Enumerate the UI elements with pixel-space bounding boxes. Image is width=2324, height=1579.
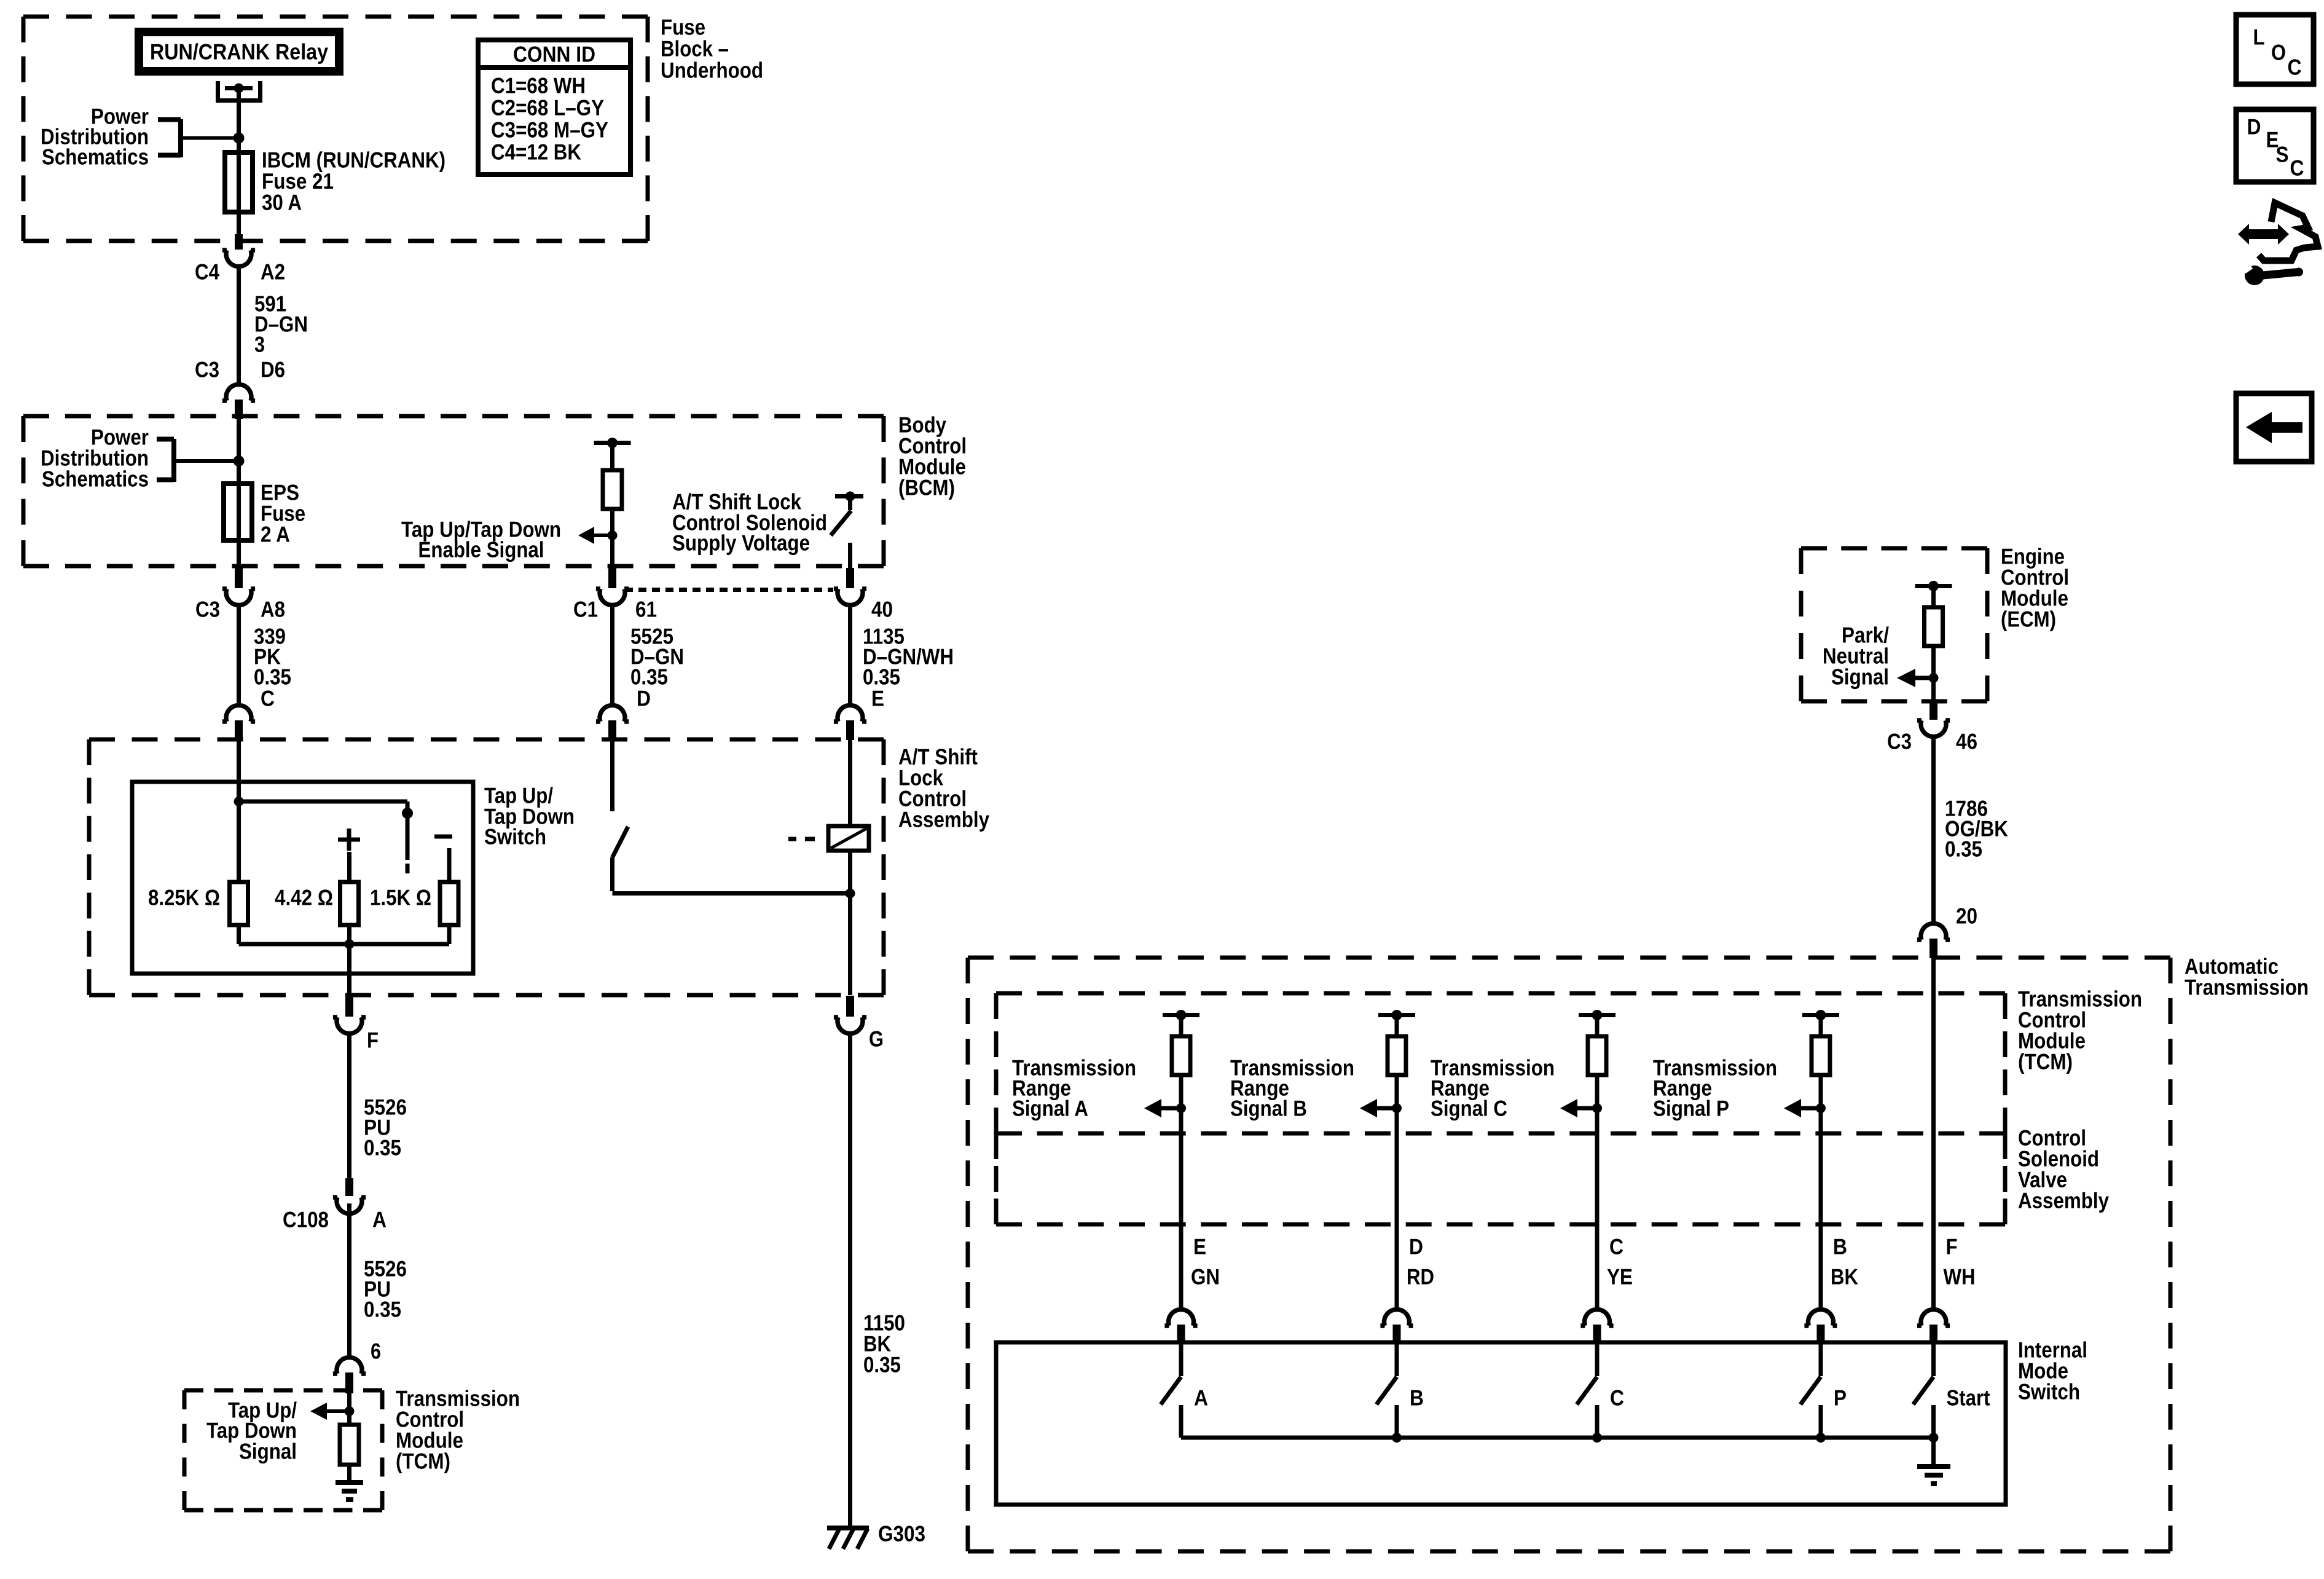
svg-text:Signal: Signal <box>239 1438 297 1463</box>
svg-text:YE: YE <box>1607 1264 1633 1289</box>
svg-text:C: C <box>2288 54 2302 79</box>
svg-text:Signal P: Signal P <box>1653 1095 1729 1120</box>
svg-text:3: 3 <box>254 331 265 356</box>
svg-text:0.35: 0.35 <box>863 1352 901 1377</box>
svg-text:61: 61 <box>635 596 657 621</box>
svg-text:C: C <box>1609 1234 1623 1259</box>
svg-text:C3: C3 <box>195 596 220 621</box>
svg-text:C: C <box>2290 155 2304 180</box>
svg-text:Signal: Signal <box>1831 664 1889 689</box>
svg-text:4.42 Ω: 4.42 Ω <box>275 884 333 910</box>
svg-text:(ECM): (ECM) <box>2001 606 2056 631</box>
svg-text:A2: A2 <box>261 259 285 284</box>
svg-text:E: E <box>1193 1234 1206 1259</box>
svg-text:GN: GN <box>1191 1264 1220 1289</box>
svg-text:Schematics: Schematics <box>42 144 149 169</box>
svg-text:0.35: 0.35 <box>364 1296 401 1321</box>
svg-text:Switch: Switch <box>2018 1379 2080 1404</box>
svg-text:30 A: 30 A <box>262 189 302 215</box>
svg-text:8.25K Ω: 8.25K Ω <box>148 884 220 910</box>
svg-text:A: A <box>1194 1385 1208 1410</box>
svg-text:O: O <box>2271 39 2286 65</box>
svg-text:C: C <box>261 685 275 711</box>
svg-text:C: C <box>1610 1385 1624 1410</box>
svg-text:CONN ID: CONN ID <box>513 41 595 66</box>
svg-text:Supply Voltage: Supply Voltage <box>672 530 810 555</box>
svg-text:Signal B: Signal B <box>1230 1095 1307 1120</box>
svg-text:C108: C108 <box>283 1207 329 1232</box>
svg-text:Signal C: Signal C <box>1431 1095 1507 1120</box>
svg-text:Signal A: Signal A <box>1012 1095 1088 1120</box>
svg-text:C1=68 WH: C1=68 WH <box>491 73 586 98</box>
svg-text:C1: C1 <box>573 596 598 621</box>
svg-text:E: E <box>871 685 884 711</box>
svg-text:0.35: 0.35 <box>1945 836 1982 861</box>
svg-text:6: 6 <box>371 1338 381 1363</box>
svg-text:Underhood: Underhood <box>661 57 763 82</box>
svg-text:Start: Start <box>1947 1385 1990 1410</box>
svg-text:D: D <box>637 685 651 711</box>
svg-text:(BCM): (BCM) <box>898 474 955 500</box>
svg-text:40: 40 <box>871 596 893 621</box>
svg-text:2 A: 2 A <box>261 521 290 546</box>
svg-text:A: A <box>372 1207 387 1232</box>
svg-text:L: L <box>2253 24 2265 49</box>
svg-text:Assembly: Assembly <box>2018 1187 2109 1213</box>
svg-text:A8: A8 <box>261 596 285 621</box>
svg-text:D6: D6 <box>261 356 285 382</box>
svg-text:RD: RD <box>1407 1264 1434 1289</box>
svg-text:(TCM): (TCM) <box>2018 1049 2073 1074</box>
svg-text:WH: WH <box>1944 1264 1976 1289</box>
svg-text:Schematics: Schematics <box>42 466 149 491</box>
svg-text:C3: C3 <box>1887 728 1912 754</box>
svg-text:D: D <box>1409 1234 1423 1259</box>
svg-text:F: F <box>1946 1234 1958 1259</box>
svg-text:Enable Signal: Enable Signal <box>418 537 544 562</box>
svg-text:C4: C4 <box>195 259 219 284</box>
svg-text:B: B <box>1833 1234 1847 1259</box>
svg-text:1.5K Ω: 1.5K Ω <box>370 884 431 910</box>
svg-text:BK: BK <box>1831 1264 1858 1289</box>
svg-text:B: B <box>1410 1385 1424 1410</box>
svg-text:P: P <box>1834 1385 1847 1410</box>
svg-text:S: S <box>2276 141 2289 167</box>
svg-text:C2=68 L–GY: C2=68 L–GY <box>491 95 604 120</box>
svg-text:G: G <box>869 1026 884 1051</box>
svg-text:Switch: Switch <box>484 824 546 849</box>
svg-text:C3: C3 <box>195 356 219 382</box>
svg-text:46: 46 <box>1956 728 1977 754</box>
svg-text:F: F <box>367 1027 379 1052</box>
svg-text:RUN/CRANK Relay: RUN/CRANK Relay <box>150 39 328 64</box>
svg-text:20: 20 <box>1956 903 1977 928</box>
svg-text:Transmission: Transmission <box>2185 974 2309 999</box>
svg-text:C3=68 M–GY: C3=68 M–GY <box>491 117 608 142</box>
svg-text:D: D <box>2247 114 2261 139</box>
svg-text:0.35: 0.35 <box>364 1135 401 1160</box>
svg-text:Assembly: Assembly <box>898 806 989 832</box>
svg-text:C4=12 BK: C4=12 BK <box>491 139 581 164</box>
svg-text:(TCM): (TCM) <box>396 1448 450 1473</box>
svg-text:G303: G303 <box>878 1521 925 1546</box>
